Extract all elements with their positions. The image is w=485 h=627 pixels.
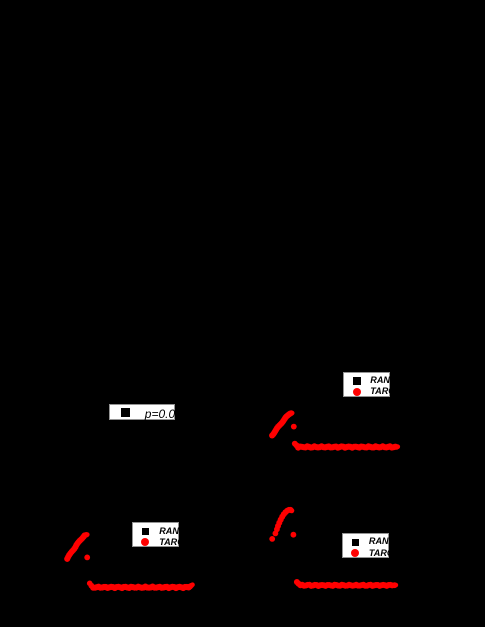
red series TAR: bottom-left subplot falling diagonal — [64, 532, 89, 562]
marker square RAND — [142, 528, 150, 536]
red series TAR: bottom-right rising run — [275, 507, 294, 529]
marker square RAND — [354, 378, 362, 386]
legend box D: RAND/TARG, bottom-right subplot — [342, 533, 389, 558]
label TARG — [159, 538, 184, 547]
red series TAR: bottom-right isolated point — [291, 532, 297, 538]
red series TAR: top-right isolated point — [291, 424, 297, 430]
label RAND — [371, 376, 397, 385]
legend box B: RAND/TARG, top-right subplot — [343, 372, 390, 397]
marker circle TARG — [141, 538, 149, 546]
label TARG — [371, 388, 396, 397]
red series TAR: bottom-left zero tail — [87, 581, 195, 592]
label RAND — [159, 528, 185, 537]
red series TAR: bottom-right subplot lower points — [269, 526, 279, 541]
legend box A: p=0.05, top-left subplot — [109, 404, 175, 420]
marker circle TARG — [352, 549, 360, 557]
label TARG — [369, 549, 394, 558]
marker circle TARG — [353, 388, 361, 396]
label p=0.05 — [145, 408, 182, 420]
label RAND — [369, 537, 395, 546]
red series TAR: bottom-right zero tail — [294, 579, 398, 589]
red series TAR: top-right subplot falling diagonal — [269, 410, 294, 438]
red series TAR: top-right zero tail — [292, 441, 400, 451]
legend box C: RAND/TARG, bottom-left subplot — [132, 522, 179, 547]
red series TAR: bottom-left isolated point — [84, 555, 90, 561]
marker square RAND — [352, 538, 360, 546]
marker square p-series — [121, 408, 130, 417]
